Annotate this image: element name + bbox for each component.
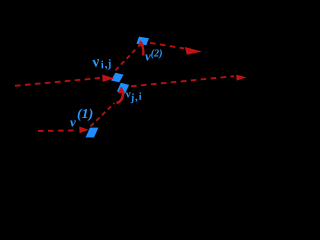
scatterer P3 (blue parallelogram, bottom left) bbox=[86, 128, 99, 138]
scatterer P1 (blue parallelogram, center) bbox=[111, 73, 124, 83]
arrowhead at right end of trajectory B bbox=[236, 75, 246, 81]
curved arrow shaft of E pointing up into P2 bbox=[117, 92, 124, 104]
wire: diagonal trajectory E from P3 up to P2 (dashed) bbox=[91, 103, 115, 126]
wire: outgoing trajectory B to far right (dashed) bbox=[131, 76, 234, 86]
svg-text:ν: ν bbox=[70, 115, 76, 130]
wire: incoming trajectory A (dashed) bbox=[15, 78, 100, 86]
wire: diagonal trajectory F from P1 up to P4 (dashed) bbox=[116, 50, 136, 71]
svg-text:(1): (1) bbox=[77, 107, 93, 122]
arrowhead of F pointing up into P4 bbox=[137, 40, 144, 47]
curved arrow shaft of F pointing up into P4 bbox=[142, 45, 144, 56]
scatterer P2 (blue parallelogram, center lower) bbox=[117, 83, 129, 94]
scatterer P4 (blue parallelogram, top) bbox=[136, 37, 149, 46]
arrowhead into scatterer P3 bbox=[79, 127, 89, 134]
arrowhead of E pointing up into P2 bbox=[118, 86, 125, 93]
arrowhead at right end of trajectory G bbox=[185, 47, 202, 55]
wire: outgoing trajectory G from P4 to upper right (dashed) bbox=[150, 43, 184, 49]
arrowhead into scatterer P1 bbox=[102, 75, 114, 82]
wire: lower incoming trajectory D (dashed) bbox=[38, 129, 78, 132]
